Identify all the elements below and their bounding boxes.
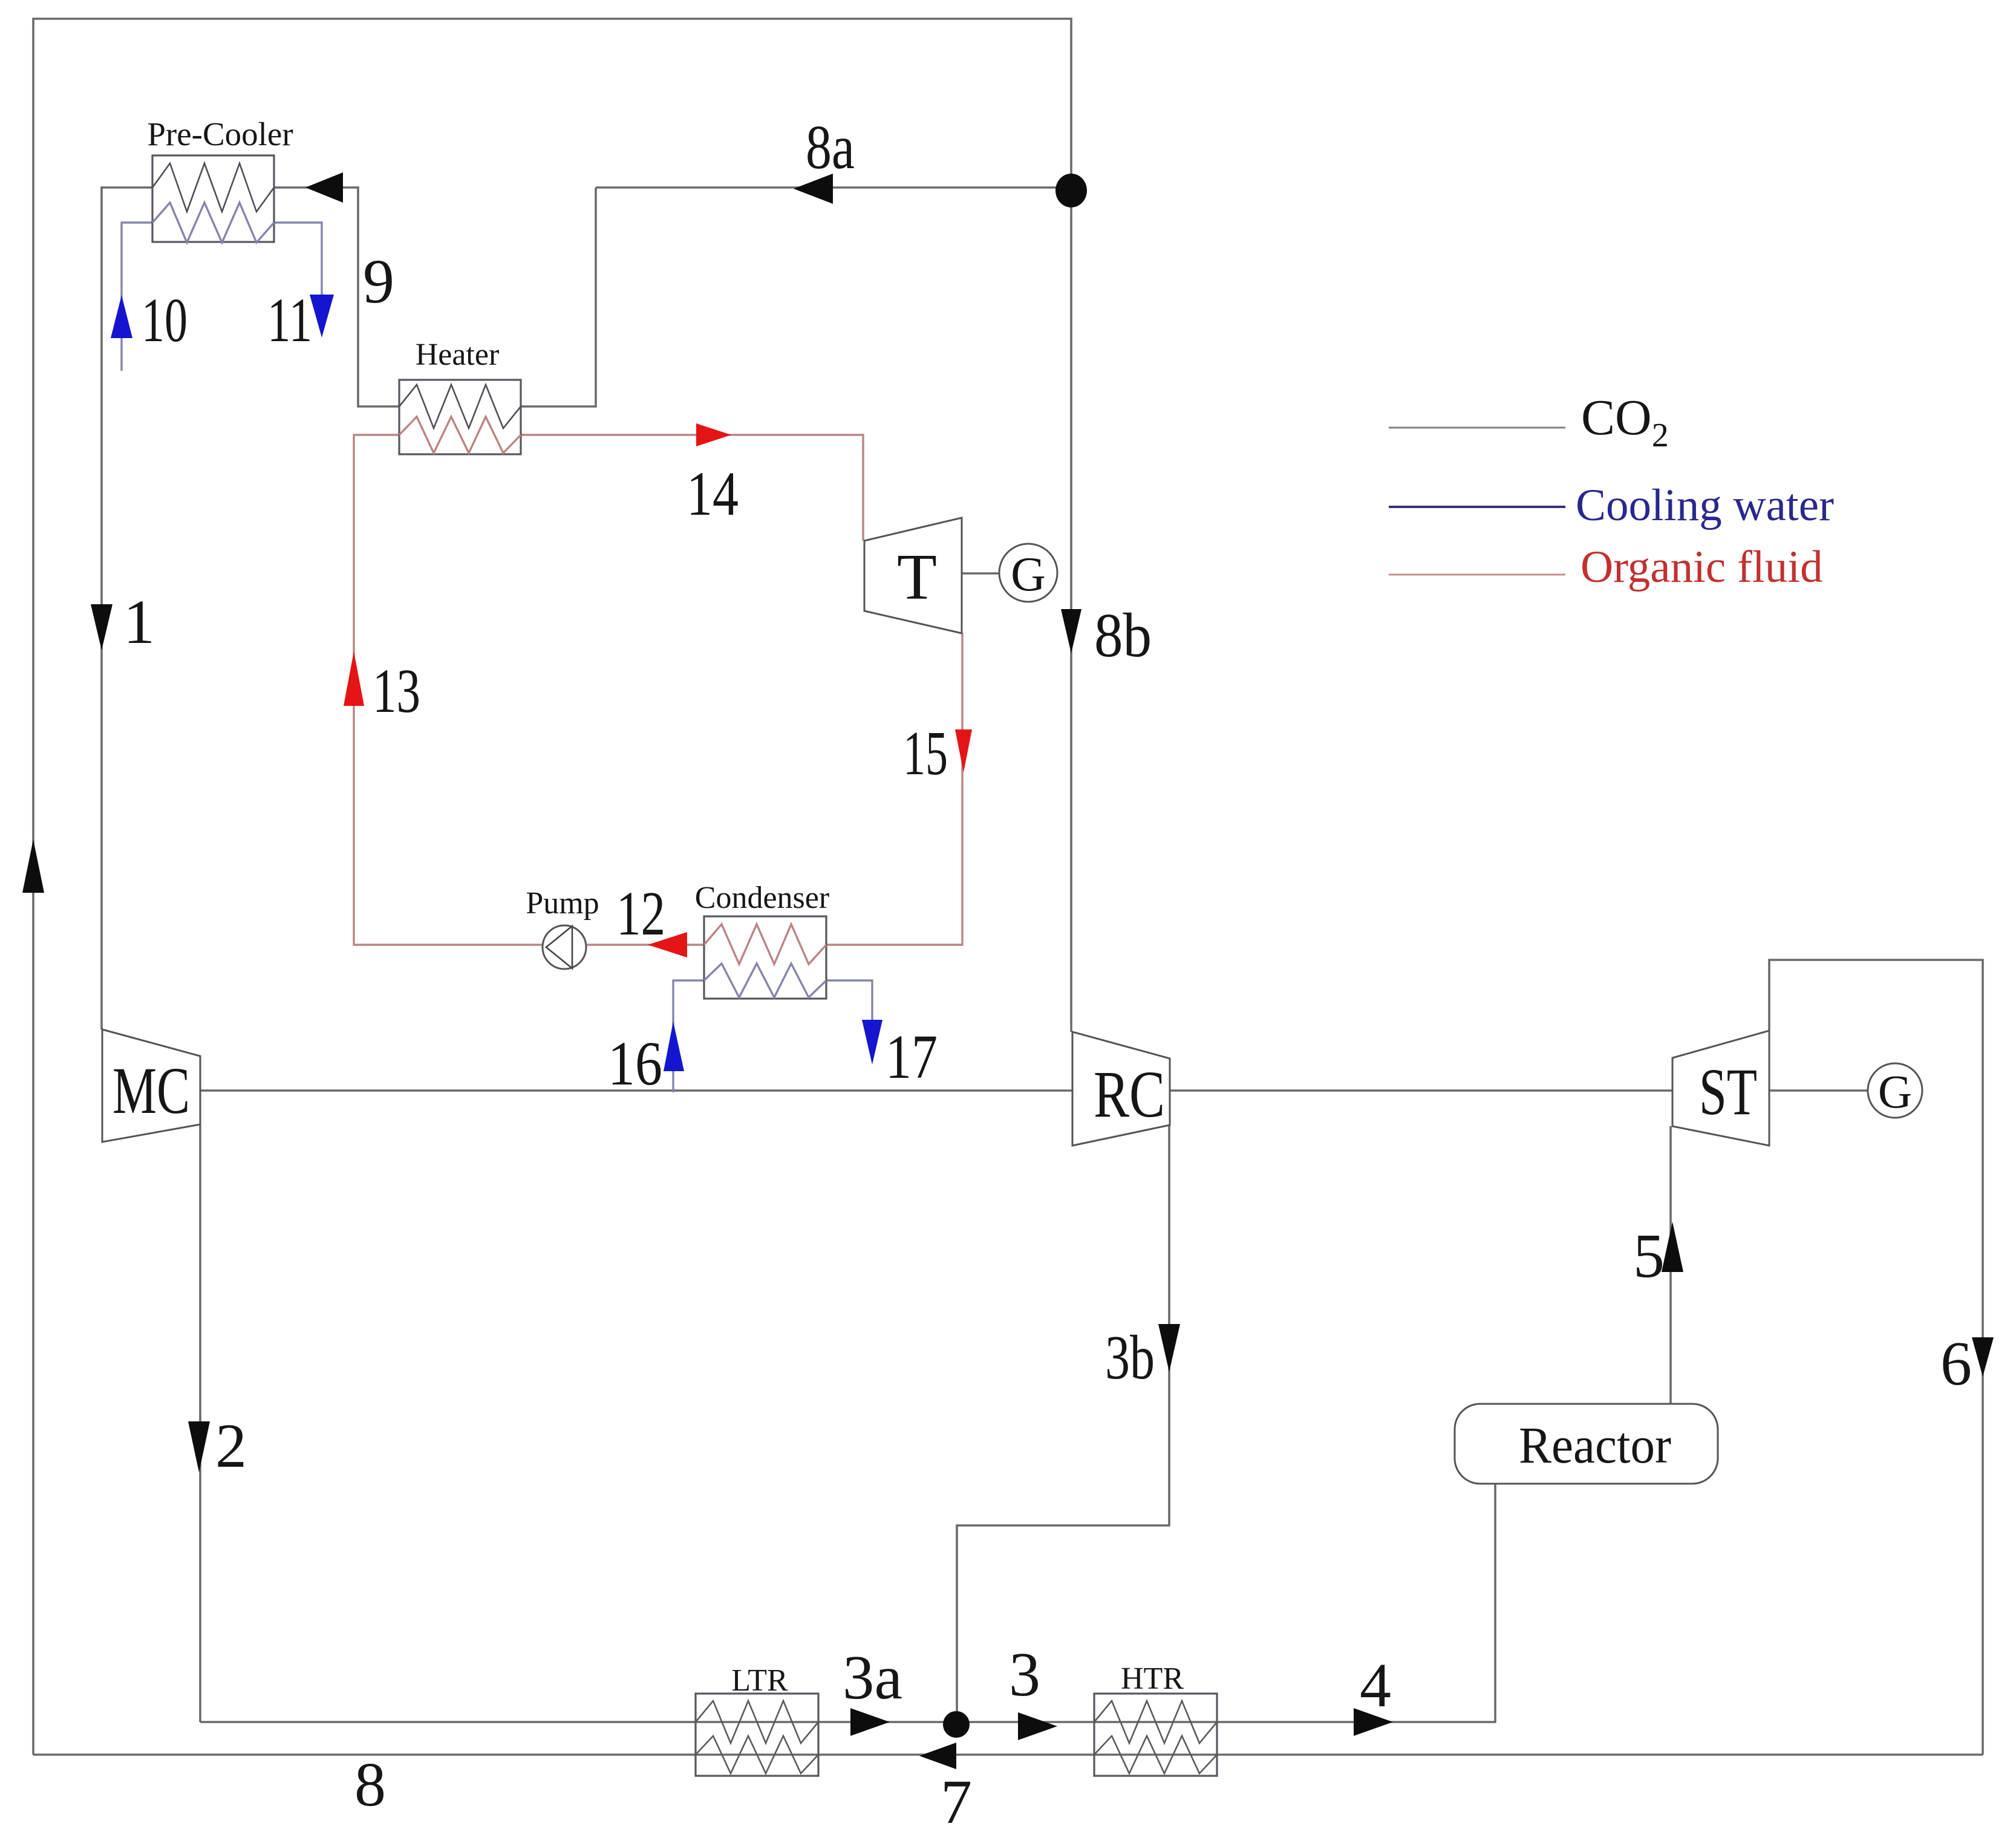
svg-text:Reactor: Reactor	[1519, 1416, 1671, 1474]
svg-text:17: 17	[886, 1022, 938, 1092]
svg-text:8: 8	[354, 1750, 386, 1819]
wire shaft ST to generator	[1769, 1089, 1868, 1092]
svg-text:15: 15	[903, 719, 948, 788]
svg-text:G: G	[1011, 548, 1046, 601]
wire stream 1: Pre-Cooler outlet down to MC inlet	[102, 188, 152, 1029]
arrow stream 13	[344, 651, 364, 706]
svg-text:3a: 3a	[843, 1643, 902, 1712]
arrow into Pre-Cooler (8a flow)	[305, 172, 343, 203]
arrow stream 1	[91, 604, 113, 650]
pump impeller triangle	[546, 926, 572, 968]
heat exchanger HTR box	[1094, 1694, 1217, 1776]
svg-text:Pre-Cooler: Pre-Cooler	[147, 116, 293, 152]
svg-text:Heater: Heater	[416, 338, 500, 372]
svg-text:Condenser: Condenser	[695, 881, 829, 915]
node mixing junction of streams 3a/3b/3	[943, 1711, 970, 1738]
node junction of streams 8/8a/8b	[1055, 174, 1087, 207]
svg-text:1: 1	[123, 587, 155, 657]
LTR hot side zigzag	[696, 1736, 818, 1773]
arrow stream 10	[111, 295, 132, 338]
svg-text:Pump: Pump	[526, 886, 599, 921]
svg-text:6: 6	[1940, 1329, 1972, 1398]
arrow stream 2	[188, 1421, 210, 1472]
svg-text:3b: 3b	[1105, 1323, 1155, 1392]
arrow stream 3a	[850, 1708, 890, 1736]
compressor MC	[102, 1029, 200, 1142]
heat exchanger Condenser box	[704, 916, 826, 999]
legend cooling water sample line	[1389, 506, 1565, 508]
compressor RC	[1072, 1032, 1170, 1146]
wire stream 8b: junction down to RC inlet	[1070, 191, 1072, 1032]
Condenser organic fluid zigzag	[704, 924, 826, 964]
Condenser cooling water zigzag	[704, 964, 826, 997]
svg-text:Cooling water: Cooling water	[1576, 480, 1834, 530]
pump P of organic cycle	[543, 925, 586, 969]
wire organic fluid 13: Condenser-Pump-Heater riser	[354, 435, 704, 945]
svg-text:8a: 8a	[806, 113, 855, 182]
wire cold CO2 main line 2-3a-3-4 to Reactor feed	[200, 1484, 1495, 1722]
svg-text:G: G	[1878, 1065, 1912, 1118]
arrow stream 3b	[1158, 1324, 1180, 1372]
arrow stream 8b	[1061, 609, 1081, 653]
svg-text:4: 4	[1360, 1651, 1391, 1720]
turbine T	[864, 518, 962, 633]
arrow stream 8a	[794, 174, 833, 204]
wire shaft RC to ST	[1170, 1089, 1672, 1092]
Heater hot CO2 zigzag	[399, 385, 521, 428]
svg-text:T: T	[897, 541, 937, 613]
heat exchanger Pre-Cooler box	[152, 155, 274, 242]
svg-text:13: 13	[373, 656, 420, 726]
svg-text:7: 7	[941, 1767, 972, 1837]
arrow stream 12	[648, 932, 687, 957]
wire CO2 drop into Heater hot side	[521, 188, 596, 406]
turbine ST	[1672, 1031, 1769, 1146]
svg-text:8b: 8b	[1094, 601, 1152, 670]
wire stream 8: left frame + top frame from LTR outlet to top junction	[33, 19, 1071, 1755]
arrow stream 5	[1662, 1222, 1683, 1272]
wire shaft MC to RC	[200, 1089, 1072, 1092]
arrow stream 14	[696, 423, 731, 446]
arrow stream 8 on left frame	[22, 840, 44, 893]
wire stream 8a: junction to Pre-Cooler inlet	[596, 186, 1071, 189]
arrow stream 11	[310, 295, 334, 338]
wire stream 9: Heater hot outlet up to Pre-Cooler	[274, 188, 399, 406]
wire stream 2: MC outlet down to LTR cold inlet	[199, 1124, 201, 1722]
svg-text:LTR: LTR	[731, 1663, 788, 1698]
svg-text:ST: ST	[1699, 1055, 1757, 1129]
svg-text:HTR: HTR	[1121, 1662, 1184, 1696]
generator G of turbine ST	[1868, 1063, 1922, 1118]
Reactor vessel	[1455, 1404, 1718, 1484]
svg-text:10: 10	[142, 285, 188, 355]
arrow stream 16	[664, 1022, 684, 1071]
arrow stream 3	[1018, 1712, 1057, 1740]
wire stream 5: Reactor outlet up to ST inlet	[1669, 1126, 1672, 1404]
svg-text:MC: MC	[113, 1054, 190, 1127]
arrow stream 6	[1972, 1337, 1994, 1377]
LTR cold side zigzag	[696, 1701, 818, 1743]
svg-text:RC: RC	[1094, 1057, 1165, 1131]
wire cooling water 17 outlet of Condenser	[826, 980, 872, 1028]
HTR hot side zigzag	[1094, 1736, 1217, 1773]
wire cooling water 16 inlet to Condenser	[673, 980, 704, 1092]
arrow stream 15	[955, 729, 972, 772]
svg-text:2: 2	[215, 1411, 247, 1481]
Heater organic fluid zigzag	[399, 417, 521, 453]
generator G of turbine T	[999, 544, 1057, 602]
wire organic fluid 15: turbine T outlet down to Condenser	[826, 633, 962, 945]
Pre-Cooler hot CO2 zigzag	[152, 163, 274, 212]
wire hot return line 6-7-8 bottom	[33, 1753, 1983, 1756]
legend organic fluid sample line	[1389, 574, 1565, 576]
svg-text:9: 9	[363, 247, 394, 316]
arrow stream 4	[1354, 1708, 1393, 1736]
HTR cold side zigzag	[1094, 1701, 1217, 1743]
svg-text:Organic fluid: Organic fluid	[1581, 542, 1823, 592]
wire cooling water 11 outlet of Pre-Cooler	[274, 223, 322, 302]
wire organic fluid 14: Heater outlet to turbine T	[521, 435, 863, 541]
wire stream 6: ST exhaust loop right side down	[1769, 960, 1983, 1755]
svg-text:11: 11	[267, 285, 312, 355]
svg-text:16: 16	[608, 1029, 662, 1098]
arrow stream 7	[919, 1743, 956, 1769]
svg-text:14: 14	[687, 459, 739, 529]
wire cooling water 10 inlet to Pre-Cooler	[122, 223, 152, 371]
svg-text:3: 3	[1009, 1640, 1040, 1709]
Pre-Cooler cooling water zigzag	[152, 203, 274, 243]
legend CO2 sample line	[1389, 427, 1565, 429]
heat exchanger LTR box	[696, 1694, 818, 1776]
wire stream 3b: RC outlet down and over to mixing node	[957, 1125, 1169, 1725]
svg-text:12: 12	[616, 879, 665, 948]
arrow stream 17	[862, 1020, 882, 1065]
heat exchanger Heater box	[399, 380, 521, 454]
svg-text:5: 5	[1633, 1221, 1665, 1291]
wire shaft T to generator	[962, 572, 999, 575]
